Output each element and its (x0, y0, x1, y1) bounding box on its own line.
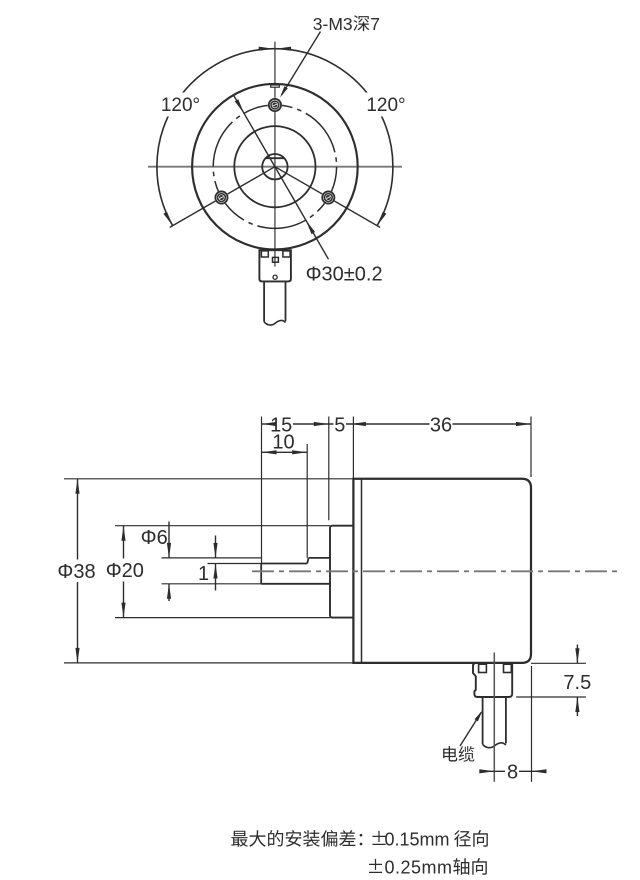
cable side left edge (482, 697, 484, 744)
gland body (259, 250, 291, 281)
gland hole (273, 275, 277, 279)
ext line shaft bottom (162, 583, 262, 585)
dim 7.5 arrows (575, 648, 579, 663)
screw hole top (268, 98, 282, 112)
dim phi38 line (77, 479, 79, 560)
svg-text:7: 7 (370, 14, 380, 34)
arc arrowheads top (259, 47, 274, 51)
side body outline (353, 479, 531, 663)
index notch at top (271, 85, 280, 87)
cable leader (460, 712, 481, 746)
cable side right edge (505, 697, 507, 743)
dim arrows 36 (351, 422, 366, 426)
ext line shaft top (162, 557, 262, 559)
svg-text:0.25mm: 0.25mm (385, 857, 453, 877)
dim phi38 arrows (75, 479, 79, 494)
note line 1 pm (372, 831, 385, 845)
phi30 arrowheads (235, 99, 244, 113)
dim phi20 arrows (121, 526, 125, 541)
cable top view right edge (285, 281, 287, 321)
bolt circle dash-dot (213, 105, 336, 228)
dim arrows 10 (262, 450, 277, 454)
note line 2 pm (369, 859, 382, 873)
ext line body right (530, 417, 532, 478)
note line 1 cjk (231, 831, 248, 847)
dim arrows 15 (262, 422, 277, 426)
svg-text:5: 5 (334, 414, 345, 436)
dim phi20 line (123, 526, 125, 559)
leader 3-M3 (282, 32, 321, 95)
radial line lower-right (275, 167, 380, 228)
svg-text:36: 36 (430, 414, 452, 436)
dim 8 line (482, 770, 508, 772)
120 deg arc left (157, 49, 275, 226)
screw hole lower-right (321, 190, 335, 204)
svg-text:7.5: 7.5 (563, 672, 591, 694)
120 deg arc right (275, 49, 393, 226)
svg-text:1: 1 (198, 563, 209, 585)
boss circle (234, 126, 315, 207)
flange (330, 526, 353, 618)
screw hole lower-left (214, 190, 228, 204)
gland center key (273, 257, 279, 262)
dim 1 arrows (213, 543, 217, 558)
ext line 7.5 bottom (516, 696, 586, 698)
svg-text:10: 10 (272, 431, 294, 453)
shaft bottom line (261, 583, 330, 585)
note line 1 cjk2 (454, 830, 471, 847)
body outer circle (192, 84, 358, 250)
connector tab left (479, 664, 487, 672)
svg-text:120°: 120° (366, 95, 405, 116)
shaft flat line (261, 563, 307, 565)
cable top view left edge (263, 281, 265, 321)
shaft top line (309, 557, 331, 559)
body front face line (361, 479, 363, 663)
svg-text:Φ30±0.2: Φ30±0.2 (306, 264, 383, 286)
ext line body top (64, 478, 353, 480)
label 8 (505, 762, 519, 780)
ext line body left (352, 417, 354, 479)
svg-text:Φ6: Φ6 (141, 527, 168, 549)
phi30 leader line (233, 95, 328, 260)
gland tab left (261, 251, 268, 257)
ext line flange left (328, 417, 330, 521)
shaft step (307, 558, 308, 564)
note line 2 cjk (453, 858, 469, 875)
svg-text:120°: 120° (161, 95, 200, 116)
shaft tip edge (260, 564, 262, 584)
ext line 7.5 top (531, 662, 586, 664)
ext line flat end (306, 444, 308, 558)
side view centerline (252, 570, 620, 572)
top view vertical centerline (274, 42, 276, 267)
shaft flat chord (266, 157, 284, 159)
dim phi6 arrows (167, 543, 171, 558)
svg-text:Φ20: Φ20 (106, 560, 144, 582)
connector tab right (504, 664, 512, 672)
label cable (443, 746, 457, 761)
svg-text:3-M3: 3-M3 (313, 14, 353, 34)
svg-text:Φ38: Φ38 (57, 561, 95, 583)
label 120 right (362, 93, 411, 117)
connector body (473, 663, 512, 697)
ext line flat left (208, 563, 262, 565)
cable break wave side view (483, 743, 506, 748)
svg-text:0.15mm: 0.15mm (385, 829, 450, 849)
dim 7.5 tails (576, 645, 578, 664)
label 120 left (156, 93, 205, 117)
cable break wave top view (264, 320, 285, 325)
gland tab right (283, 251, 290, 257)
arc arrowhead lower-right (377, 212, 386, 226)
ext line body bottom (64, 662, 353, 664)
top view horizontal centerline (148, 166, 402, 168)
svg-text:8: 8 (507, 762, 518, 784)
arc arrowhead lower-left (163, 212, 172, 226)
ext line shaft tip (261, 417, 263, 564)
dim 1 tails (215, 536, 217, 558)
dim line 10 (262, 451, 308, 453)
ext line 8 right (531, 666, 533, 782)
dim 8 arrows (479, 769, 494, 773)
dim line 15-5-36 (262, 423, 270, 425)
ext line flange bottom (115, 617, 330, 619)
radial line lower-left (170, 167, 275, 228)
cable centerline (493, 653, 495, 782)
shaft circle (262, 154, 287, 179)
ext line flange top (115, 525, 330, 527)
dim phi6 tails (168, 522, 170, 558)
